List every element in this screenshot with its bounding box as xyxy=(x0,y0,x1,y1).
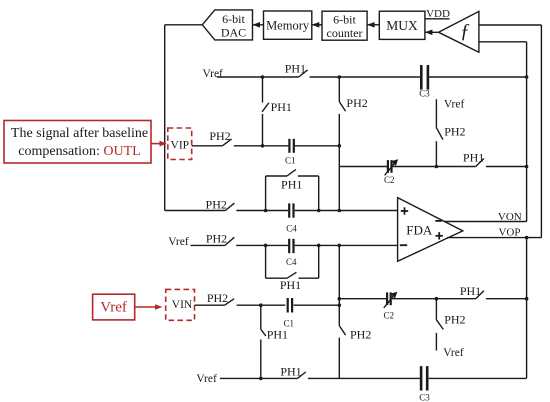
wire line2 left xyxy=(191,244,226,246)
wire VOP output xyxy=(447,237,541,239)
junction VOP and inner rail xyxy=(525,236,529,240)
wire line1 right xyxy=(295,210,398,212)
label Vref line2 xyxy=(168,236,189,248)
svg-text:Vref: Vref xyxy=(444,98,465,110)
node VIP (dashed box) xyxy=(168,128,192,160)
wire left rail vertical xyxy=(164,25,166,211)
wire C2 line right xyxy=(486,166,527,168)
wire Vref top line right xyxy=(429,76,526,78)
svg-text:PH2: PH2 xyxy=(209,129,230,143)
wire C2p line right xyxy=(486,298,527,300)
wire Vref branch upper xyxy=(435,99,437,128)
svg-text:C3: C3 xyxy=(419,393,430,402)
wire DAC output to left rail xyxy=(165,24,203,26)
switch PH2 on line1 xyxy=(206,197,235,211)
svg-text:PH2: PH2 xyxy=(346,96,367,110)
svg-text:The signal after baseline: The signal after baseline xyxy=(11,126,148,141)
wire Vref bottom-right branch upper xyxy=(435,299,437,320)
wire PH1 branch upper xyxy=(262,77,264,103)
arrow OUTL to VIP xyxy=(151,141,167,147)
junction on Vref line at mid branch xyxy=(338,75,342,79)
wire VIN line right xyxy=(294,304,340,306)
label Vref at top right branch xyxy=(444,98,465,110)
wire VIN line middle xyxy=(237,304,286,306)
wire PH1 branch lower xyxy=(262,114,264,146)
svg-text:Vref: Vref xyxy=(203,68,224,80)
annotation box Vref xyxy=(93,294,135,320)
node VIN (dashed box) xyxy=(166,289,195,320)
junction mid branch at VIN line xyxy=(338,303,342,307)
junction mid branch at C2p line xyxy=(338,297,342,301)
switch PH1 on top Vref line xyxy=(285,61,308,77)
wire outer right rail (VOP feedback) xyxy=(540,25,542,238)
wire VIP line left xyxy=(192,145,223,147)
svg-text:VIP: VIP xyxy=(171,140,190,152)
svg-text:PH2: PH2 xyxy=(444,313,465,327)
wire line1 left xyxy=(165,210,226,212)
label VON xyxy=(498,211,522,223)
svg-text:Vref: Vref xyxy=(443,347,464,359)
FDA input minus xyxy=(400,244,407,246)
wire bypass bottom left vertical xyxy=(265,245,267,278)
junction VIP line at mid branch xyxy=(338,144,342,148)
wire bypass bottom horizontal right xyxy=(299,277,319,279)
wire mid lower branch upper part xyxy=(338,245,340,325)
capacitor C2 top (variable) xyxy=(384,159,398,185)
svg-text:6-bit: 6-bit xyxy=(333,12,356,26)
wire C2p line left xyxy=(339,298,386,300)
FDA input plus xyxy=(401,207,408,214)
wire bypass top horizontal left xyxy=(266,175,287,177)
svg-text:PH2: PH2 xyxy=(207,291,228,305)
junction on Vref line at PH1 branch xyxy=(261,75,265,79)
switch PH1 on C2 line xyxy=(463,151,484,167)
capacitor C4 bottom xyxy=(286,239,297,267)
wire inner right rail bottom xyxy=(526,238,528,379)
wire VIN line left xyxy=(195,304,225,306)
switch PH2 vertical right-bottom xyxy=(436,313,465,330)
wire bypass top horizontal right xyxy=(298,175,319,177)
svg-text:VOP: VOP xyxy=(498,227,520,239)
label VOP xyxy=(498,227,520,239)
junction bottom Vref line at PH1 branch xyxy=(259,377,263,381)
svg-text:VIN: VIN xyxy=(172,299,193,311)
junction line2 mid branch xyxy=(338,244,342,248)
switch PH2 on line2 xyxy=(206,232,234,246)
wire Vref bottom line right xyxy=(429,377,527,379)
label Vref top xyxy=(203,68,224,80)
switch PH1 on top bypass xyxy=(281,169,302,191)
svg-text:Vref: Vref xyxy=(168,236,189,248)
block 6-bit counter xyxy=(322,11,367,40)
wire C2p line middle xyxy=(392,298,476,300)
svg-text:Vref: Vref xyxy=(196,373,217,385)
junction VIP line at PH1 branch xyxy=(261,144,265,148)
wire Vref top line middle xyxy=(310,76,421,78)
wire PH1 bottom branch lower xyxy=(260,340,262,379)
wire inner right rail top (VON feedback) xyxy=(526,42,528,222)
wire mid branch upper xyxy=(338,77,340,102)
svg-text:PH1: PH1 xyxy=(280,364,301,378)
switch PH2 vertical mid-top xyxy=(339,96,367,111)
switch PH2 vertical mid-bottom xyxy=(339,326,371,342)
svg-text:counter: counter xyxy=(327,26,363,40)
junction line2 bypass right xyxy=(317,244,321,248)
svg-text:PH1: PH1 xyxy=(267,328,288,342)
wire PH1 bottom branch upper xyxy=(260,305,262,329)
svg-text:PH1: PH1 xyxy=(463,151,484,165)
svg-text:PH2: PH2 xyxy=(206,197,227,211)
block MUX xyxy=(379,11,425,39)
wire bypass bottom horizontal left xyxy=(266,277,287,279)
svg-text:PH1: PH1 xyxy=(285,61,306,75)
svg-text:PH2: PH2 xyxy=(444,125,465,139)
wire VIP line right xyxy=(295,145,339,147)
switch PH2 on VIN line xyxy=(207,291,234,305)
svg-text:FDA: FDA xyxy=(406,223,433,238)
wire comparator top input xyxy=(479,24,542,26)
comparator U1 (f) xyxy=(439,11,479,52)
wire Vref bottom line middle xyxy=(308,377,420,379)
wire arrow counter to Memory xyxy=(312,22,322,28)
wire bypass top right vertical xyxy=(318,176,320,211)
wire Vref top line left xyxy=(217,76,299,78)
switch PH1 on C2p line xyxy=(460,284,484,299)
wire mid lower branch lower part xyxy=(338,338,340,379)
wire C2 line left xyxy=(339,166,387,168)
svg-text:Vref: Vref xyxy=(100,300,127,316)
svg-text:C2: C2 xyxy=(383,310,394,320)
block DAC (6-bit DAC) xyxy=(202,10,252,40)
junction line1 mid branch xyxy=(338,209,342,213)
capacitor C1 top xyxy=(285,139,296,166)
wire VIP line middle xyxy=(234,145,288,147)
capacitor C3 top xyxy=(419,65,430,98)
junction C2 line and inner rail xyxy=(525,165,529,169)
label Vref at bottom right branch xyxy=(443,347,464,359)
wire Vref bottom-right branch lower xyxy=(435,333,437,351)
wire line2 right xyxy=(295,244,398,246)
junction C2p line at Vref-PH2 branch xyxy=(435,297,439,301)
switch PH2 on VIP line xyxy=(209,129,231,146)
svg-text:C1: C1 xyxy=(285,156,296,166)
svg-text:PH1: PH1 xyxy=(280,278,301,292)
svg-text:PH1: PH1 xyxy=(281,177,302,191)
wire comparator bottom input xyxy=(479,41,527,43)
power VDD xyxy=(425,8,450,20)
svg-text:PH2: PH2 xyxy=(350,328,371,342)
svg-text:C3: C3 xyxy=(419,88,430,98)
switch PH1 vertical left-top xyxy=(262,100,292,114)
wire line2 middle xyxy=(236,244,288,246)
label Vref bottom xyxy=(196,373,217,385)
junction line2 bypass left xyxy=(264,244,268,248)
switch PH2 vertical right-top xyxy=(436,125,465,140)
wire bypass bottom right vertical xyxy=(318,245,320,278)
switch PH1 on bottom bypass xyxy=(280,272,301,292)
junction C3 line and inner rail xyxy=(525,75,529,79)
svg-text:C2: C2 xyxy=(384,175,395,185)
wire C2 line middle xyxy=(392,166,475,168)
svg-text:ƒ: ƒ xyxy=(460,20,470,42)
block Memory xyxy=(264,11,312,39)
wire Vref branch lower xyxy=(435,141,437,166)
FDA output minus xyxy=(435,220,442,222)
junction C2 line at Vref-PH2 branch xyxy=(435,165,439,169)
junction C2p line and inner rail xyxy=(525,297,529,301)
switch PH1 vertical left-bottom xyxy=(261,328,288,342)
wire arrow Memory to DAC xyxy=(253,22,264,28)
switch PH1 on bottom Vref line xyxy=(280,364,305,378)
wire VON output xyxy=(444,221,526,223)
capacitor C3 bottom xyxy=(419,366,430,402)
wire arrow MUX to counter xyxy=(367,22,379,28)
FDA output plus xyxy=(436,232,443,239)
arrow Vref to VIN xyxy=(135,304,163,310)
svg-text:C4: C4 xyxy=(286,257,297,267)
svg-text:C4: C4 xyxy=(286,223,297,233)
svg-text:MUX: MUX xyxy=(386,18,418,33)
annotation box OUTL xyxy=(4,121,151,164)
wire comparator output to MUX xyxy=(425,30,439,36)
svg-text:PH1: PH1 xyxy=(460,284,481,298)
junction VIN line at PH1 branch xyxy=(259,303,263,307)
wire mid branch lower xyxy=(338,114,340,211)
junction line1 bypass left xyxy=(264,209,268,213)
junction line1 bypass right xyxy=(317,209,321,213)
op-amp FDA xyxy=(398,198,463,262)
wire Vref bottom line left xyxy=(220,377,298,379)
svg-text:Memory: Memory xyxy=(266,19,310,33)
capacitor C1 bottom xyxy=(283,298,294,328)
svg-text:PH2: PH2 xyxy=(206,232,227,246)
capacitor C4 top xyxy=(286,203,297,233)
wire line1 middle xyxy=(236,210,288,212)
svg-text:PH1: PH1 xyxy=(271,100,292,114)
svg-text:6-bit: 6-bit xyxy=(222,12,245,26)
capacitor C2 bottom (variable) xyxy=(383,292,397,321)
wire bypass top left vertical xyxy=(265,176,267,211)
svg-text:DAC: DAC xyxy=(221,26,246,40)
svg-text:compensation: OUTL: compensation: OUTL xyxy=(18,144,140,159)
